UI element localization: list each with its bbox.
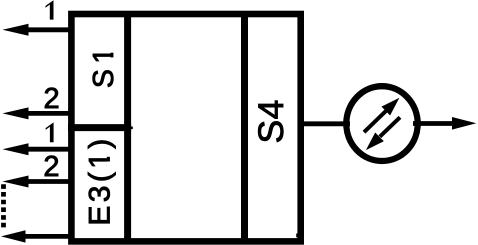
svg-text:S4: S4 [251, 99, 291, 143]
svg-text:2: 2 [43, 151, 59, 183]
svg-text:2: 2 [44, 83, 60, 115]
